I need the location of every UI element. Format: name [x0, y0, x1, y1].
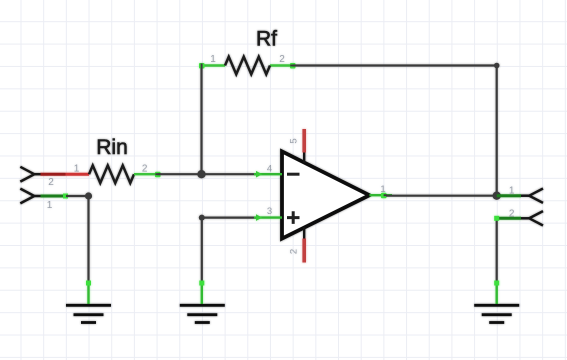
- pin 5 V+ power: [303, 152, 305, 163]
- wire: Rf pin1 vertical down to node A: [200, 66, 202, 175]
- wire: Rf pin2 across top and down to node B: [293, 63, 500, 196]
- svg-text:2: 2: [289, 249, 300, 254]
- minus sign: [287, 173, 300, 176]
- ground G3: [474, 281, 519, 323]
- wire: non-inverting input across and down to ground G2: [199, 215, 260, 283]
- wire: bottom input across and down to ground G1: [66, 192, 92, 283]
- svg-text:1: 1: [509, 186, 515, 197]
- connector input pin 2 (top-left arrow): [20, 167, 65, 182]
- resistor Rf: [199, 57, 296, 75]
- svg-text:2: 2: [509, 209, 515, 220]
- svg-text:1: 1: [74, 164, 80, 175]
- wire: Rin.2 to op-amp inverting input: [158, 173, 261, 175]
- pin 1 output: [369, 194, 392, 196]
- svg-text:3: 3: [267, 206, 272, 217]
- op-amp U1: [254, 129, 392, 263]
- svg-text:1: 1: [380, 184, 385, 195]
- svg-text:5: 5: [289, 138, 300, 143]
- wire: op-amp output to node B: [386, 195, 497, 197]
- connector output pin 2 (bottom-right arrow): [494, 211, 543, 225]
- svg-text:1: 1: [47, 200, 53, 211]
- ground G1: [66, 281, 111, 323]
- junction node A: [197, 170, 205, 178]
- svg-text:2: 2: [279, 54, 285, 65]
- connector input pin 1 (bottom-left arrow): [20, 189, 68, 204]
- pin 2 V- power: [303, 227, 305, 239]
- svg-text:Rf: Rf: [256, 28, 277, 51]
- wire: conn-2 stub down to ground G3: [496, 218, 498, 283]
- wire: red net to Rin.1: [66, 173, 90, 176]
- resistor Rin: [89, 165, 161, 183]
- svg-text:Rin: Rin: [96, 136, 128, 159]
- svg-text:2: 2: [142, 164, 148, 175]
- connector output pin 1 (top-right arrow): [497, 189, 543, 203]
- pin 4 inverting input: [254, 173, 282, 175]
- junction node B: [493, 192, 501, 200]
- ground G2: [180, 281, 225, 323]
- svg-text:1: 1: [210, 54, 216, 65]
- svg-text:4: 4: [267, 164, 272, 175]
- pin 3 non-inverting input: [254, 216, 282, 218]
- svg-text:2: 2: [48, 177, 54, 188]
- plus sign: [287, 211, 300, 224]
